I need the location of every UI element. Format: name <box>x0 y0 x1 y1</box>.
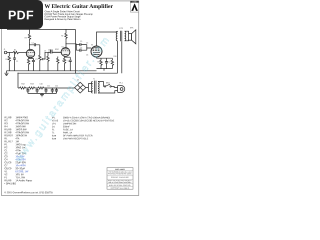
capacitor C10 <box>36 88 39 93</box>
PDF badge <box>0 0 43 29</box>
svg-text:PWR, 1A: PWR, 1A <box>63 131 73 134</box>
svg-text:R10: R10 <box>114 56 117 58</box>
svg-text:C11: C11 <box>47 85 50 87</box>
node plate V1 <box>29 44 30 45</box>
switch SW1 <box>104 86 105 87</box>
svg-text:W Electric Guitar Amplifier: W Electric Guitar Amplifier <box>44 4 113 10</box>
svg-text:C10: C10 <box>39 84 42 86</box>
svg-text:EL84 Power Pentode Output Stag: EL84 Power Pentode Output Stage <box>44 15 81 18</box>
wire bridge to transformer <box>86 84 93 92</box>
resistor R2 <box>8 53 10 71</box>
logo box <box>130 1 138 12</box>
svg-text:© 2001 GiovanniRadices.com te: © 2001 GiovanniRadices.com tel. 0733 558… <box>4 191 53 194</box>
speaker SPK1 <box>129 34 132 41</box>
component value labels <box>4 27 135 88</box>
capacitor C2 <box>30 43 40 46</box>
svg-text:10+10, ECC83 EL84 (ECC83 NECA): 10+10, ECC83 EL84 (ECC83 NECA) BI-PENTOD… <box>63 119 115 122</box>
resistor R10 <box>111 58 113 68</box>
svg-text:C7: C7 <box>108 62 110 64</box>
svg-text:C3: C3 <box>44 50 46 52</box>
wire secondary <box>122 31 129 73</box>
capacitor C5 <box>76 43 87 46</box>
page border <box>2 1 139 196</box>
svg-text:1/W PWR RECEPTACLE: 1/W PWR RECEPTACLE <box>63 137 89 140</box>
svg-text:C1: C1 <box>16 61 18 63</box>
svg-text:C5: C5 <box>80 41 82 43</box>
svg-text:R12: R12 <box>21 84 24 86</box>
svg-text:C4: C4 <box>68 61 70 63</box>
capacitor C6 <box>76 49 87 52</box>
parts list group A <box>4 116 32 185</box>
capacitor C9 <box>26 88 29 93</box>
svg-text:V3: V3 <box>91 44 93 46</box>
svg-text:P1: P1 <box>36 59 38 61</box>
capacitor C11 <box>45 88 48 93</box>
svg-text:• SPK1/8Ω: • SPK1/8Ω <box>4 182 16 185</box>
resistor R1 <box>13 51 19 53</box>
wire psu feed <box>18 73 20 88</box>
resistor R9 <box>100 58 102 68</box>
svg-text:1A Audio Paper: 1A Audio Paper <box>15 179 32 182</box>
svg-text:V2: V2 <box>62 47 64 49</box>
svg-text:R9: R9 <box>98 62 100 64</box>
svg-text:OF PWR AMPLIFIER FILTER: OF PWR AMPLIFIER FILTER <box>63 134 93 137</box>
wire grid V3 <box>87 45 91 51</box>
svg-text:J1: J1 <box>4 49 6 51</box>
wire mains bottom <box>98 91 118 93</box>
capacitor C1 <box>13 53 16 71</box>
svg-text:R7: R7 <box>61 36 63 38</box>
ground <box>4 71 8 76</box>
resistor R12 <box>20 87 28 89</box>
wire B+ drop <box>75 30 77 74</box>
psu ground line <box>28 93 57 96</box>
wire plate V1 <box>29 42 31 50</box>
capacitor C7 <box>105 58 108 68</box>
svg-text:Class A Single Ended Valve Cir: Class A Single Ended Valve Circuit <box>44 10 80 13</box>
ground bus <box>7 70 97 72</box>
svg-text:fuse: fuse <box>52 135 57 137</box>
wire plate V2 <box>65 41 67 48</box>
svg-text:R8: R8 <box>62 61 64 63</box>
svg-text:SW2: SW2 <box>55 49 59 51</box>
svg-text:ECC83 Twin Triode Input Gain S: ECC83 Twin Triode Input Gain Stages Pre-… <box>44 13 93 16</box>
resistor R14 <box>38 87 46 89</box>
wire B+ top rail <box>7 29 76 31</box>
node plate V2 <box>66 43 67 44</box>
tube V3 <box>91 46 102 57</box>
capacitor C4 <box>65 57 72 71</box>
wire to grid <box>19 52 27 54</box>
parts list group B <box>52 116 115 140</box>
schematic <box>4 27 136 97</box>
tube V2 <box>61 48 70 57</box>
resistor R8 cathode <box>63 56 65 71</box>
capacitor C13 <box>55 88 58 93</box>
wire grid V2 <box>60 51 63 53</box>
tube V1 <box>26 49 34 57</box>
svg-text:fuse: fuse <box>52 138 57 140</box>
capacitor C12 <box>51 88 54 93</box>
rectifier D1 bridge <box>75 82 86 93</box>
resistor R13 <box>29 87 37 89</box>
transformer OT1 <box>116 31 117 73</box>
svg-text:5000V A 25ml A 1/2W A 77kΩ 100: 5000V A 25ml A 1/2W A 77kΩ 100mA (BRAND) <box>63 116 110 119</box>
svg-text:250mF: 250mF <box>63 126 71 128</box>
resistor R3 <box>28 30 30 42</box>
title text <box>44 4 113 21</box>
capacitor C3 <box>48 50 61 54</box>
resistor R4 cathode V1 <box>27 58 29 71</box>
wire to bridge <box>46 87 75 89</box>
svg-text:C3: C3 <box>48 50 50 52</box>
resistor R6 <box>57 57 59 71</box>
title block <box>107 168 133 190</box>
svg-text:LAMP/NEON: LAMP/NEON <box>63 122 77 125</box>
svg-text:C5: C5 <box>86 42 88 44</box>
wire coupling <box>66 44 76 50</box>
svg-text:C6: C6 <box>80 47 82 49</box>
plug PL1 <box>118 86 125 93</box>
svg-text:V1: V1 <box>27 54 29 56</box>
potentiometer P1 <box>39 45 45 71</box>
B+ mid line <box>18 72 118 74</box>
svg-text:PL1: PL1 <box>119 82 122 84</box>
transformer T1 <box>91 82 92 94</box>
svg-text:SW1: SW1 <box>106 82 110 84</box>
svg-text:C12: C12 <box>55 85 58 87</box>
svg-text:FUSE, 1A: FUSE, 1A <box>63 128 74 131</box>
svg-text:R2: R2 <box>6 59 8 61</box>
resistor R5 <box>47 52 49 71</box>
resistor R7 <box>65 30 67 41</box>
svg-text:C2: C2 <box>32 43 34 45</box>
junction dots <box>9 29 105 89</box>
svg-text:PDF: PDF <box>8 8 34 22</box>
input jack J1 <box>4 51 7 54</box>
capacitor C8 <box>29 58 35 70</box>
svg-text:R13: R13 <box>30 84 33 86</box>
wire wiper <box>45 52 48 59</box>
svg-text:R3: R3 <box>25 38 27 40</box>
svg-text:Designed & Drawn by Peter Wils: Designed & Drawn by Peter Wilson <box>44 18 81 21</box>
svg-text:R1: R1 <box>14 50 16 52</box>
wire plate V3 <box>97 32 118 46</box>
wire mains top <box>98 82 104 87</box>
wire input <box>7 52 13 54</box>
svg-text:T1: T1 <box>93 79 95 81</box>
cathode bus V3 <box>97 57 113 71</box>
